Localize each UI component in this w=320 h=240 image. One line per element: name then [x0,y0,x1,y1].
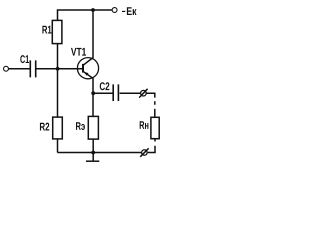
resistor R3 (Re) [88,116,98,139]
label C1 [20,55,29,63]
terminal output bottom (circle with slash) [142,150,148,156]
wire ground rail [58,152,142,154]
label R2 [40,123,49,131]
transistor VT1 emitter lead and wire down to R3 [83,71,93,116]
wire input terminal to C1 [9,68,30,70]
label VT1 [71,48,86,56]
node collector junction on supply rail [91,8,95,12]
label R3 (Re) [76,122,85,130]
node emitter/C2 junction [91,91,95,95]
label R1 [42,26,51,34]
wire R3 bottom through rail to ground [92,139,94,161]
transistor VT1 emitter arrow (PNP) [84,72,89,76]
label -Ek text [127,7,137,15]
wire Rn top lead (dashed) [154,101,156,117]
terminal input [4,66,9,71]
terminal output top (circle with slash) [141,90,147,96]
wire top supply rail [58,10,113,20]
terminal -Ek [112,8,117,13]
resistor R1 [52,20,62,43]
wire C1 to base [36,68,82,70]
label C2 [100,82,110,90]
wire R2 bottom lead to ground rail [57,139,59,153]
wire C2 to output terminal [120,92,141,94]
wire R1 bottom lead to base node [57,44,59,69]
wire emitter node to C2 [93,92,112,94]
wire Rn bottom lead (dashed) to bottom terminal [148,139,155,153]
label -Ek minus sign [122,11,125,12]
node ground rail junction [91,151,95,155]
node base divider junction [56,67,60,71]
wire R2 top lead [57,69,59,117]
transistor VT1 body circle [77,58,98,79]
wire output terminal to corner above Rn [146,93,154,97]
ground [86,160,99,162]
label Rn [140,121,149,129]
resistor R2 [53,117,63,139]
capacitor C2 [113,84,118,101]
resistor Rn [151,117,159,138]
transistor VT1 collector lead and wire to supply rail [83,10,93,65]
transistor VT1 base bar [82,64,84,73]
capacitor C1 [30,60,35,77]
